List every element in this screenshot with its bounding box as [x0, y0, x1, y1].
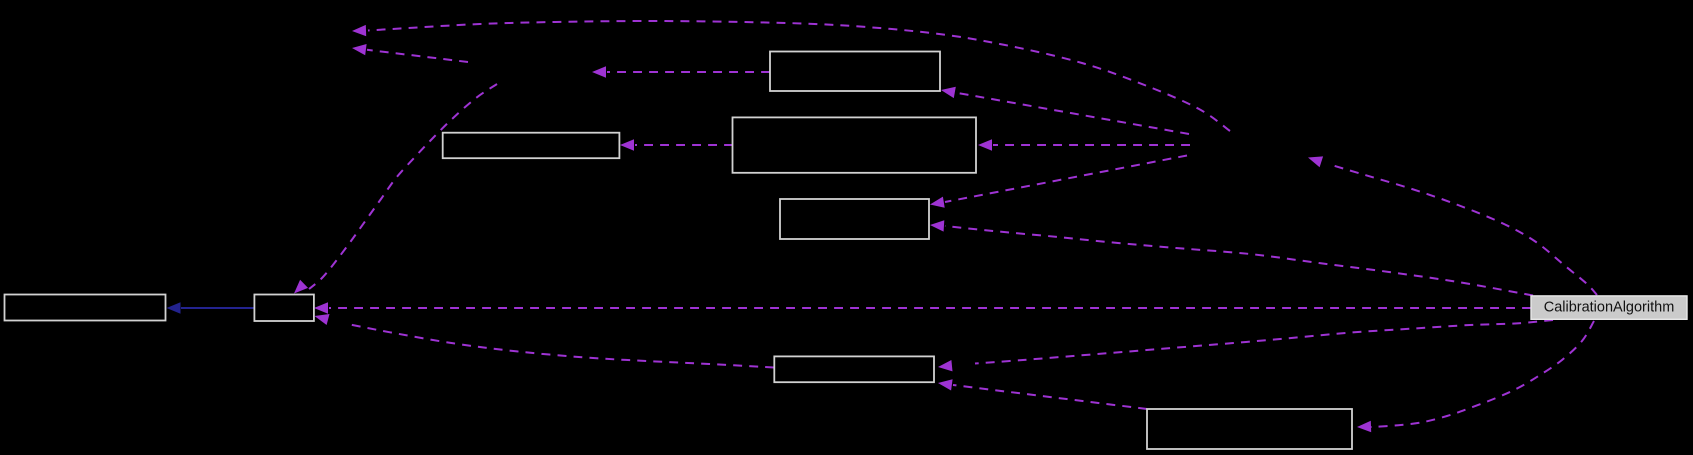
wire E12 dashed nodeS6->nodeB — [349, 324, 774, 367]
node B small box — [254, 295, 314, 322]
wire E14 dashed nodeS7->nodeS6 corner — [953, 385, 1147, 409]
wire E2 dashed TL3->TL0 lower — [367, 50, 468, 62]
node L8 box left-middle — [443, 133, 620, 159]
node S6 box lower-middle — [774, 356, 934, 382]
wire E10 dashed nodeM->nodeL8 — [635, 144, 733, 146]
node CalibrationAlgorithm (current node, grey fill) — [1531, 296, 1687, 319]
wire E13 dashed CalibrationAlgorithm->nodeS6 — [975, 320, 1553, 364]
node C3 box — [780, 199, 929, 239]
wire E9 dashed CalibrationAlgorithm->N1 — [1328, 164, 1597, 295]
wire E11 dashed CalibrationAlgorithm->nodeB horizontal — [329, 307, 1531, 309]
wire E7 dashed N1->nodeC3 upper — [945, 156, 1187, 203]
node M middle tall box — [733, 117, 977, 172]
wire E4 dashed sweep TL3->nodeB top — [309, 84, 497, 289]
node S7 box bottom-right — [1147, 409, 1352, 449]
node A box far left — [5, 295, 166, 321]
node T top box — [770, 52, 940, 92]
wire E5 dashed N1->nodeT corner — [955, 93, 1189, 135]
wire E3 dashed nodeT->TL3 — [607, 71, 770, 73]
wire E0 solid navy edge nodeB->nodeA — [181, 307, 254, 309]
wire E6 dashed N1->nodeM — [993, 144, 1190, 146]
wire E8 dashed CalibrationAlgorithm->nodeC3 lower — [945, 226, 1533, 296]
wire E15 dashed CalibrationAlgorithm->nodeS7 — [1371, 321, 1594, 427]
wire E1 dashed arc N1->TL0 upper — [368, 21, 1230, 131]
svg-text:CalibrationAlgorithm: CalibrationAlgorithm — [1544, 300, 1675, 316]
